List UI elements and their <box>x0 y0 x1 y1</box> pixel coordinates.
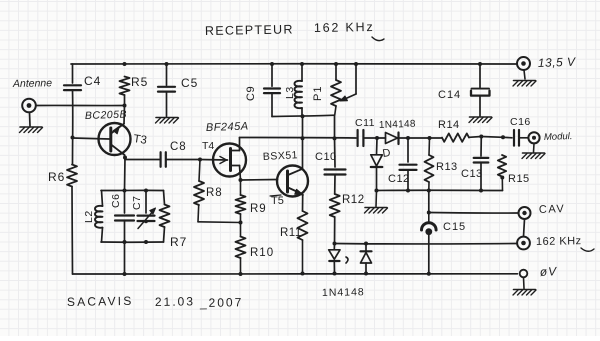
svg-text:CAV: CAV <box>539 203 566 216</box>
svg-text:C12: C12 <box>388 173 410 185</box>
svg-text:C16: C16 <box>510 116 531 128</box>
svg-text:øV: øV <box>539 264 557 279</box>
svg-text:C14: C14 <box>438 89 461 101</box>
svg-text:R6: R6 <box>48 170 65 184</box>
svg-text:R12: R12 <box>342 194 365 206</box>
svg-text:1N4148: 1N4148 <box>379 119 416 131</box>
svg-text:L3: L3 <box>284 86 296 99</box>
svg-text:R8: R8 <box>206 187 223 199</box>
svg-text:R10: R10 <box>250 247 274 259</box>
svg-text:L2: L2 <box>83 210 95 223</box>
svg-text:C8: C8 <box>170 141 187 153</box>
svg-text:R9: R9 <box>250 203 267 215</box>
svg-text:T3: T3 <box>133 133 148 147</box>
svg-text:T4: T4 <box>202 140 214 152</box>
svg-text:C13: C13 <box>461 168 483 180</box>
svg-text:C4: C4 <box>84 74 101 88</box>
svg-text:13,5 V: 13,5 V <box>538 55 577 70</box>
svg-text:R5: R5 <box>131 75 148 89</box>
svg-text:C7: C7 <box>131 196 143 210</box>
svg-text:SACAVIS: SACAVIS <box>67 294 134 309</box>
svg-text:BC205B: BC205B <box>85 109 128 122</box>
svg-text:T5: T5 <box>271 195 284 207</box>
svg-text:1N4148: 1N4148 <box>322 286 365 299</box>
svg-text:C9: C9 <box>245 86 257 101</box>
svg-text:162 KHz: 162 KHz <box>536 235 582 248</box>
svg-text:R7: R7 <box>170 235 187 249</box>
svg-text:P1: P1 <box>312 86 324 101</box>
svg-text:C11: C11 <box>355 117 375 129</box>
svg-text:BF245A: BF245A <box>206 121 249 134</box>
svg-text:21.03: 21.03 <box>155 294 195 309</box>
svg-text:_2007: _2007 <box>199 295 244 310</box>
svg-text:Antenne: Antenne <box>12 77 52 90</box>
svg-text:R14: R14 <box>438 119 460 131</box>
svg-text:C6: C6 <box>110 194 122 208</box>
svg-text:R15: R15 <box>508 173 530 185</box>
svg-text:R13: R13 <box>436 161 458 173</box>
svg-text:C10: C10 <box>315 151 337 163</box>
svg-text:R11: R11 <box>280 227 302 239</box>
svg-text:C5: C5 <box>181 76 198 90</box>
svg-text:Modul.: Modul. <box>544 131 573 143</box>
svg-text:RECEPTEUR: RECEPTEUR <box>205 22 294 38</box>
svg-text:BSX51: BSX51 <box>263 149 299 163</box>
svg-text:162 KHz: 162 KHz <box>314 20 375 35</box>
svg-text:C15: C15 <box>443 221 466 233</box>
